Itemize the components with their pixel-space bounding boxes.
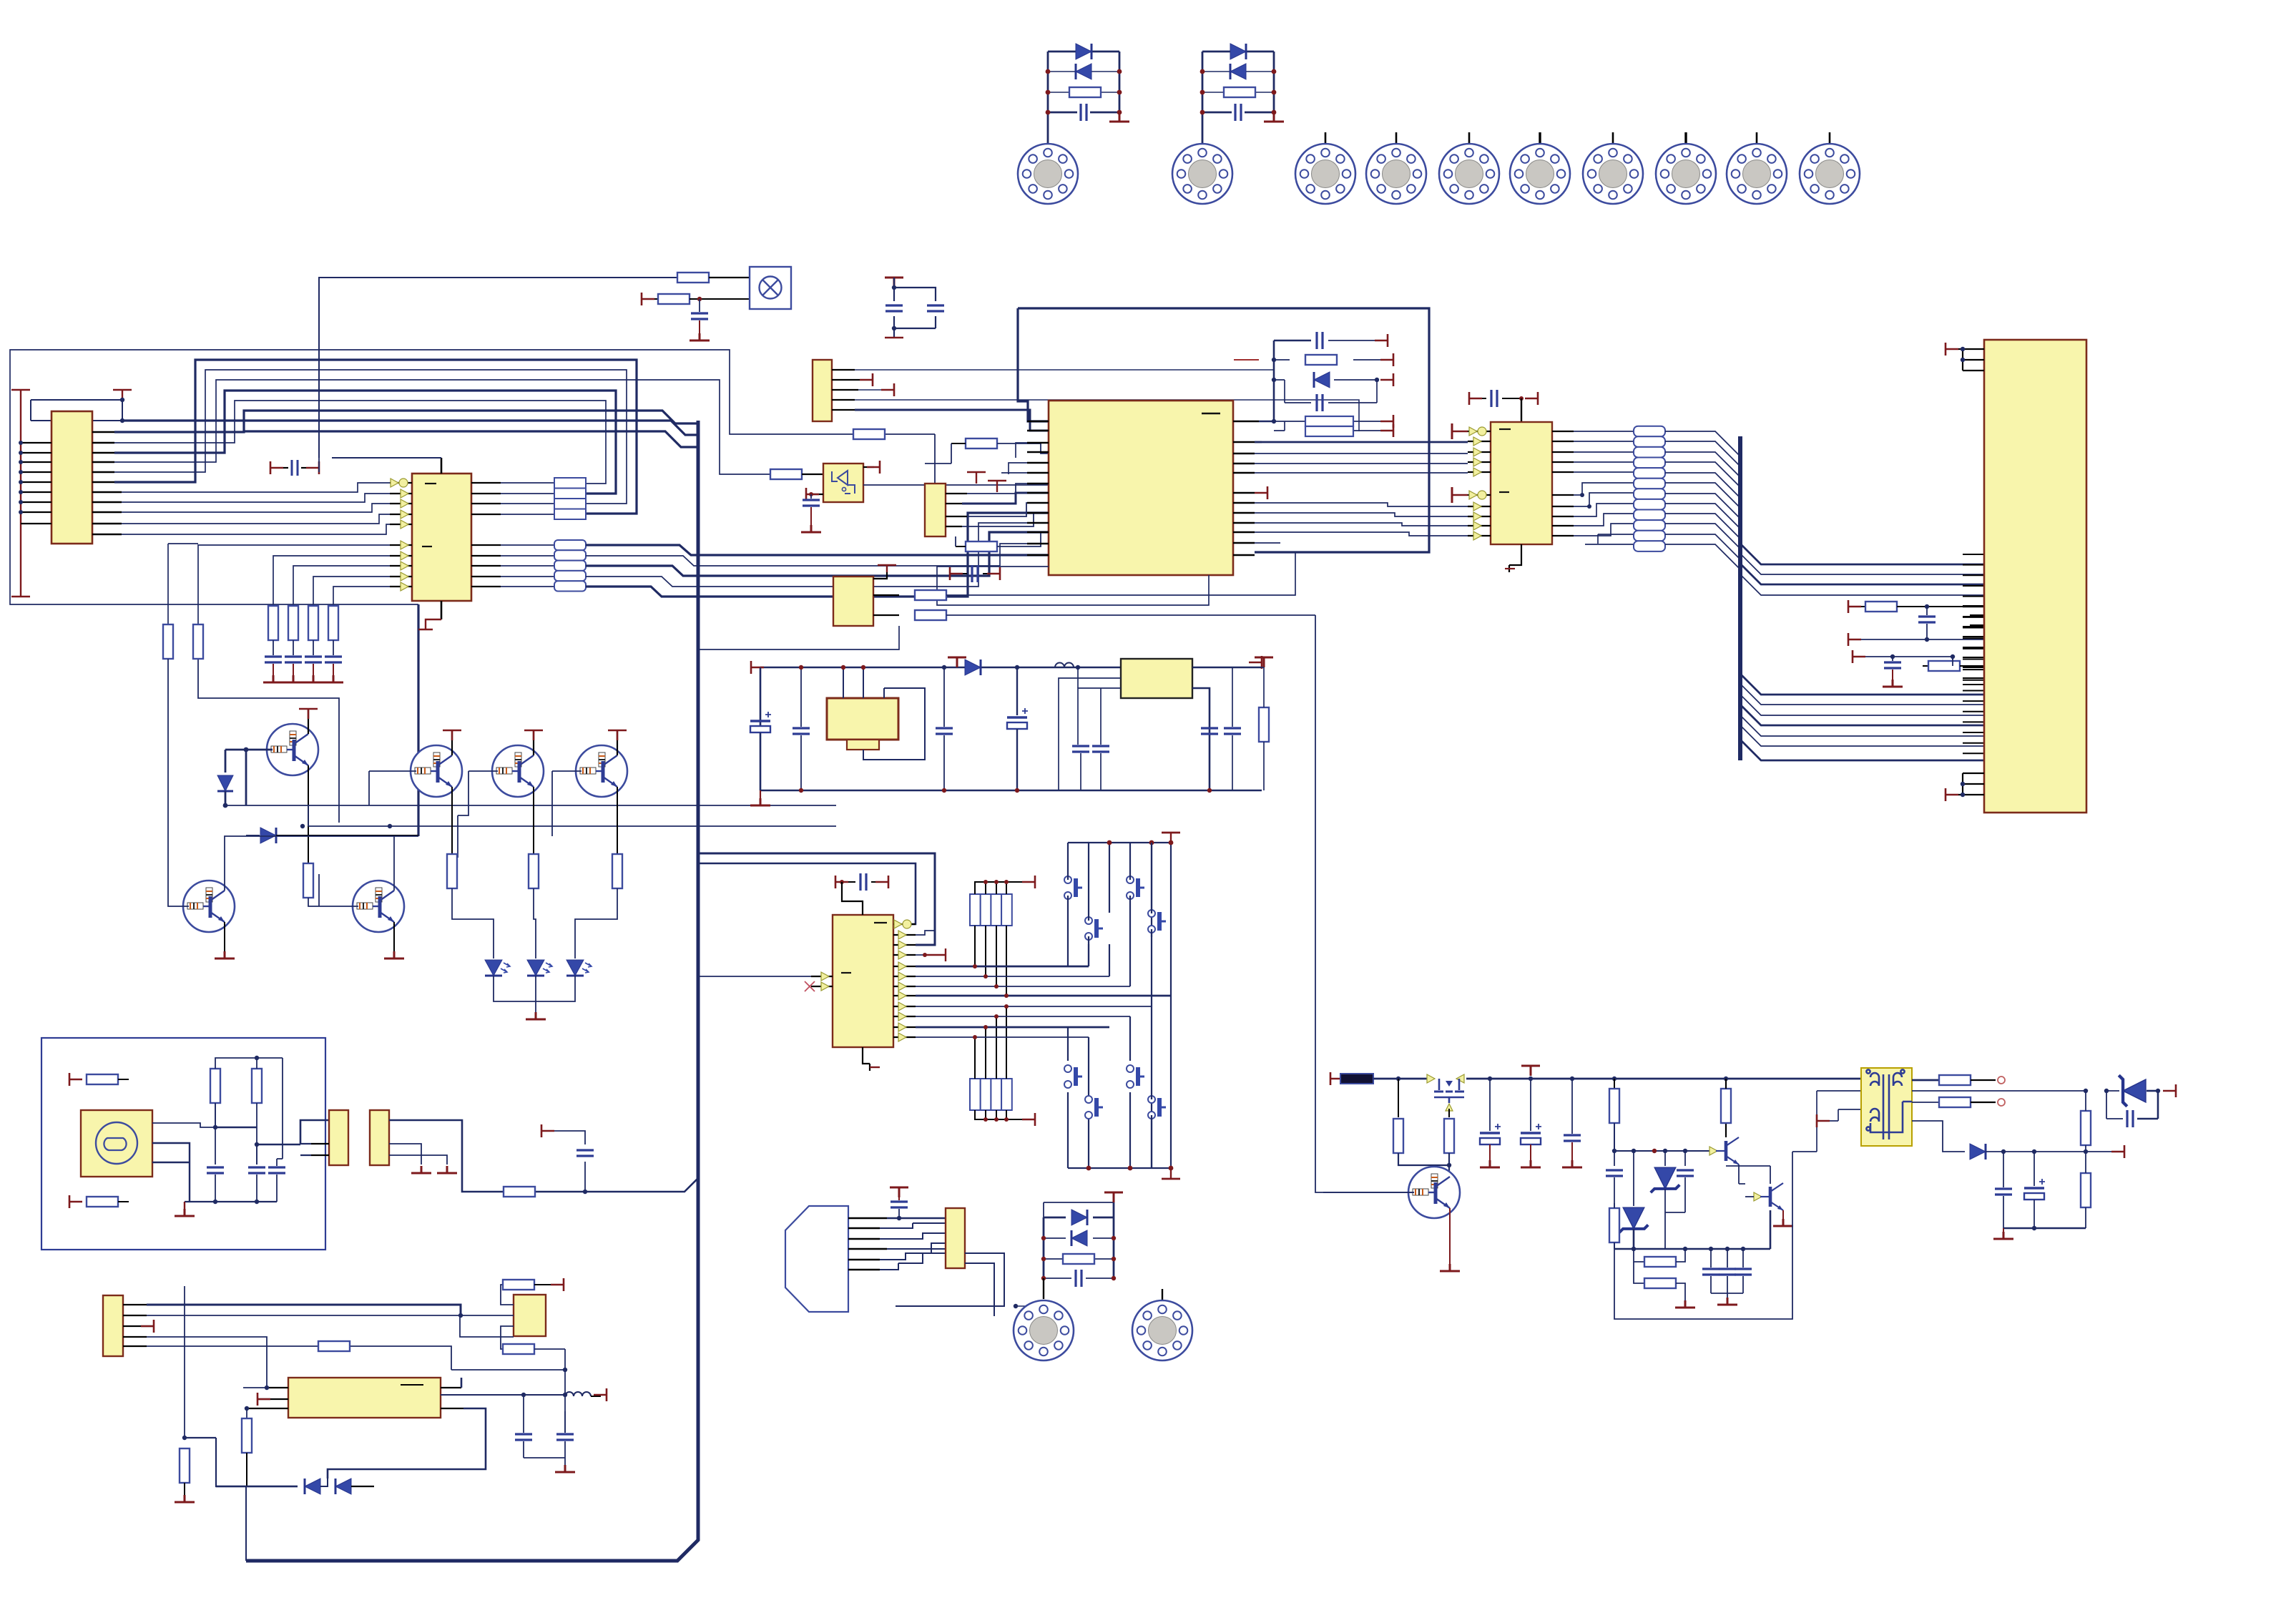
mic pin wires (152, 1103, 329, 1202)
top wires (215, 1058, 283, 1159)
CON3 pin wires (300, 1144, 329, 1155)
no-connect dash (1234, 359, 1259, 361)
transformer output resistor R43 (1912, 1097, 2005, 1107)
capacitor C8 (690, 299, 710, 340)
connector CON3 (329, 1110, 348, 1165)
capacitor C43 (577, 1150, 594, 1156)
resistor R29 R30 stack (1305, 416, 1353, 436)
ground (1109, 114, 1129, 122)
switch SW1 (1085, 917, 1103, 940)
Q3 power (524, 730, 543, 755)
bundle wire 2 (114, 370, 627, 504)
big connector CN1 (1984, 340, 2086, 813)
diode network right: verticals (1044, 1202, 1114, 1278)
resistor R1 (1069, 87, 1101, 97)
electrolytic C32 (1480, 1079, 1501, 1167)
wires U2 lower-left pins to RC columns (168, 544, 390, 625)
pack2 output wires crossing bus to CPU (586, 513, 1049, 597)
diode D12 (1044, 1230, 1114, 1246)
capacitor C19 (793, 667, 810, 790)
resistor R38 (1609, 1203, 1619, 1249)
ground (437, 1166, 457, 1173)
caps C37 C38 C39 (1702, 1249, 1719, 1293)
wires resistors to LEDs (452, 888, 617, 958)
pad P2 (1172, 144, 1232, 204)
diode D7 (216, 1479, 328, 1494)
junction dots (1200, 69, 1277, 115)
bottom ground tick (1162, 1168, 1180, 1179)
capacitor C31 (1853, 650, 1955, 687)
capacitor C36 (1677, 1151, 1694, 1212)
CON1 left pin wires to power rail (21, 443, 51, 524)
capacitor C28 (1044, 1270, 1114, 1287)
electrolytic C41 (2024, 1152, 2045, 1228)
transistor Q10 (1726, 1166, 1793, 1226)
U5 right pins (1552, 431, 1574, 536)
top power tick (1162, 833, 1180, 843)
CON5 wires (147, 1305, 565, 1386)
tick on CPU right pin (1255, 486, 1267, 499)
feed wires from bus (698, 853, 935, 945)
resistor R37 (1609, 1079, 1619, 1151)
decoupling capacitor C3 with ticks (270, 460, 319, 476)
lamp circuit: resistor R9 (677, 273, 750, 283)
capacitor C40 (1995, 1152, 2012, 1228)
amplifier IC U3 (288, 1378, 441, 1418)
CPU left wires extra (1001, 443, 1027, 474)
handset speaker SP1 (785, 1206, 848, 1312)
wire top loop of connector (31, 400, 122, 421)
wires below R7 R8 (168, 458, 319, 830)
diode D3 (1230, 44, 1246, 59)
resistor R7 (163, 624, 173, 659)
resistor R35 (1393, 1079, 1403, 1153)
junction dots (1046, 69, 1122, 115)
U2 ground (418, 601, 441, 629)
CPU right pin stubs (1233, 421, 1262, 555)
ground (411, 1166, 431, 1173)
capacitor C34 (1562, 1079, 1582, 1167)
resistor R11 under Q1 (303, 863, 313, 898)
U2 top pin stub (441, 458, 443, 474)
bank outputs chamfer into bus (1665, 431, 1740, 569)
bottom rail (1993, 1228, 2086, 1239)
diode D4 (1230, 64, 1246, 79)
wire from reset resistor junction (885, 433, 935, 435)
wire from 918 row to resistor row (1952, 657, 1953, 666)
Q5 emitter ground (215, 922, 235, 958)
aux winding diode D15 (1912, 1121, 2124, 1159)
capacitor C15 (556, 1411, 574, 1458)
diode D8 (328, 1469, 374, 1494)
resistor R10 (642, 293, 750, 305)
diode D6 right (246, 828, 418, 843)
CON2 pin wires (832, 370, 860, 410)
capacitor C27 (890, 1187, 908, 1220)
capacitor C5 (283, 657, 303, 682)
diode D10 (948, 657, 981, 675)
crystal block X1 (925, 484, 946, 536)
inductor L2 (1055, 663, 1074, 667)
resistor R40 (1634, 1262, 1685, 1300)
wire bus feeders (122, 421, 698, 447)
Q1 power (299, 709, 318, 734)
wire lamp feed vertical (319, 278, 677, 458)
tick on pin3 (141, 1320, 154, 1333)
electrolytic C21 (1007, 667, 1028, 790)
top rail to power (1044, 1202, 1114, 1217)
dashed area box (41, 1038, 325, 1250)
wires to connector CON6 (880, 1218, 946, 1270)
switch SW7 (1085, 1096, 1103, 1119)
U3 pin3 junction (245, 1406, 249, 1411)
voltage detector U10 (833, 577, 873, 626)
RN2 top wires up (975, 1006, 1006, 1079)
resistor network RN1 top (970, 894, 1012, 926)
long top loop wire CPU pin1 to pin lastrow (1018, 308, 1429, 552)
driver top decoupling cap C29 (1469, 390, 1538, 422)
ground (1264, 114, 1284, 122)
LED LD2 (527, 960, 552, 976)
resistor R6 (328, 606, 338, 640)
Q2 emitter (451, 787, 453, 858)
resistor R31 (1192, 657, 1273, 790)
resistor R39 (1634, 1249, 1685, 1267)
CN1 bottom power pins (1946, 773, 1984, 801)
button column verticals upper (1089, 843, 1171, 996)
transistor Q8 (1408, 1167, 1460, 1218)
capacitor pair C9 C10 (885, 278, 944, 338)
pad P7 with stub (1612, 132, 1614, 144)
snubber R41 (1448, 1176, 1450, 1177)
wire R11 bottom (308, 898, 319, 906)
connector CON6 (946, 1208, 965, 1268)
connector CON2 (813, 360, 832, 421)
wires under resistors (1398, 1153, 1449, 1177)
wire U2 top to feed (332, 457, 441, 459)
Q1 base wire (225, 749, 273, 751)
cap ground (524, 1458, 575, 1472)
Q1 emitter down (308, 765, 309, 868)
RC network A: resistor R33 (1848, 600, 1984, 613)
RN1 top bar (975, 876, 1035, 894)
switch SW6 (1127, 1065, 1144, 1088)
connector CON1 (51, 411, 92, 544)
button column verticals lower (1068, 996, 1171, 1168)
diode D2 (1076, 64, 1091, 79)
wire from outer loop down to transistor bank (417, 604, 419, 836)
resistor network RN2 bottom (970, 1079, 1012, 1110)
zener D16 top right (2106, 1075, 2176, 1127)
lamp LP1 (750, 267, 791, 309)
wire R8 column to bank (198, 659, 339, 823)
wire zener cap bottom to rail (1614, 1203, 1685, 1249)
right bus (1738, 436, 1742, 760)
ground rail (175, 1202, 277, 1216)
resistor R14 (612, 854, 622, 888)
switch SW4 (1127, 876, 1144, 899)
junction dots (120, 398, 124, 423)
pad P9 with stub (1756, 132, 1758, 144)
transistor Q6 (353, 881, 404, 932)
resistor bank RN3 (12 cells) (1634, 426, 1665, 551)
U3 right pins (441, 1388, 463, 1408)
regulator section: top rail (760, 667, 1262, 790)
transformer T1 (1861, 1068, 1912, 1146)
decoupling cap C26 (835, 873, 888, 915)
CPU bottom left loop wire (937, 567, 1209, 605)
SP1 pin wires (848, 1218, 887, 1270)
bus to connector wires upper (1740, 544, 1984, 595)
junction dot (697, 297, 702, 301)
bundle wire 4 (114, 391, 616, 494)
U9 left pins (811, 976, 833, 986)
resistor R32 (1044, 1254, 1114, 1264)
RC network top right of CPU: vertical feed (1259, 340, 1388, 431)
snubber network 1 wires (1048, 52, 1119, 144)
resistor R26 (925, 438, 1049, 464)
bundle wire 5 (114, 401, 606, 484)
upper switch stems (1089, 843, 1152, 1006)
resistor R8 (193, 624, 203, 659)
capacitor C4 (263, 657, 283, 682)
U3 pin1 wire (243, 1386, 267, 1388)
wire down to pad (1043, 1278, 1044, 1299)
electrolytic C33 (1521, 1079, 1541, 1167)
Q3 emitter (533, 787, 534, 858)
transistor Q2 (411, 745, 462, 797)
transistor Q5 (183, 881, 235, 932)
CPU left pin stubs (1027, 421, 1049, 555)
microphone MIC1 (81, 1110, 152, 1177)
U2 left pin triangles and stubs (upper) (390, 483, 412, 524)
U10 top pin to power (873, 565, 896, 579)
U3 left pins (247, 1388, 288, 1408)
caps C24 C25 (1201, 728, 1218, 734)
U9 ground (863, 1047, 880, 1071)
capacitor C14 (515, 1395, 532, 1458)
CON1 right pin stubs (92, 432, 122, 534)
wires CPU to driver (1255, 442, 1468, 536)
IC U2 (412, 474, 471, 601)
capacitor C16 (1317, 332, 1323, 349)
resistor R36 (1444, 1109, 1454, 1153)
bundle wire 3 to reset resistor (114, 380, 770, 474)
base drive wire from bus (1315, 615, 1414, 1192)
resistor R28 (1305, 355, 1337, 365)
switch SW8 (1148, 1096, 1166, 1119)
battery holder BT1 (827, 665, 925, 760)
capacitor C17 (1317, 394, 1323, 411)
switch SW3 (1064, 876, 1082, 899)
U6 left lower pin with tick and cap (801, 488, 823, 532)
resistor pack RP1 (554, 478, 586, 519)
Q5 collector up (225, 836, 418, 891)
bottom rail (1068, 1115, 1171, 1168)
Q5 base wire (168, 830, 189, 906)
transformer output resistor R42 (1912, 1075, 2005, 1085)
CON4 output wires (389, 1120, 698, 1192)
Q4 emitter (617, 787, 618, 858)
resistor R19 (318, 1341, 350, 1351)
CN1 top power pins (1946, 343, 1984, 371)
column wires and caps (273, 640, 333, 655)
matrix row wires (916, 966, 1171, 1037)
pad P8 with stub (1684, 132, 1687, 144)
lower rail (1614, 1210, 1770, 1249)
diode D11 (1071, 1210, 1087, 1225)
CPU lower right stub wire (1255, 542, 1280, 544)
lower section: connector CON5 (103, 1295, 123, 1356)
resistor R5 (308, 606, 318, 640)
wires U2 to packs (501, 483, 554, 587)
zener D13 (1651, 1151, 1680, 1212)
RN1 bottom wires down (975, 926, 1006, 996)
inductor L1 (441, 1392, 601, 1396)
bus to connector wires lower (1740, 674, 1984, 760)
resistor R25 (in 607 line) (853, 429, 885, 439)
connector CON4 (370, 1110, 389, 1165)
driver IC U5 (1491, 422, 1552, 544)
capacitor C6 (303, 657, 323, 682)
RC network B (1848, 633, 1927, 646)
U8 input wires (1059, 667, 1121, 790)
Q4 base wire (552, 771, 582, 836)
pad P5 with stub (1468, 132, 1471, 144)
reset IC U6 (823, 464, 863, 502)
main vertical bus (246, 421, 698, 1561)
U4 left wires (460, 1315, 514, 1337)
snubber network 2 wires (1202, 52, 1274, 144)
capacitor C7 (323, 657, 343, 682)
wire base rail (225, 805, 836, 806)
pad P1 (1018, 144, 1078, 204)
reset chain resistor R24 (770, 469, 823, 479)
pad P10 with stub (1829, 132, 1831, 144)
input tick (1330, 1072, 1343, 1085)
capacitor C42 (950, 565, 1000, 582)
pad P3 with stub (1325, 132, 1327, 144)
long sense wire (1912, 1090, 2086, 1092)
Q6 collector up (393, 836, 395, 891)
U6 output wire (863, 434, 1049, 485)
resistor R16 (69, 1195, 129, 1208)
power tick (1521, 1066, 1540, 1076)
CPU U7 (1049, 401, 1233, 575)
U8 output (1192, 688, 1210, 790)
diode D9 (1314, 372, 1330, 388)
main rail (1373, 1078, 1740, 1080)
connector pins short stubs (1963, 606, 1984, 685)
wire left riser to diode row (245, 1486, 247, 1561)
bundle wire 1 (outer) (114, 360, 637, 514)
resistor R13 (529, 854, 539, 888)
DCDC block U8 (1121, 659, 1192, 698)
tick on pin4 (916, 948, 946, 961)
LED common wire and ground (494, 976, 575, 1019)
resistor R48 (873, 610, 1315, 620)
capacitor C2 (1235, 104, 1241, 121)
U5 ground (1505, 544, 1521, 572)
transistor Q1 (267, 724, 318, 775)
resistor R4 (288, 606, 298, 640)
U6 top right tick (863, 461, 880, 474)
ticks above crystal (967, 472, 1006, 492)
ticks on first pins (1452, 423, 1468, 439)
U2 left pin stubs (lower) (390, 545, 412, 587)
mid row junctions (1614, 1150, 1713, 1152)
pad P11 (1014, 1300, 1074, 1360)
IC U4 small (514, 1295, 546, 1336)
transistor Q4 (576, 745, 627, 797)
resistor R18 (252, 1069, 262, 1103)
Q3 base wire (458, 771, 498, 858)
MOSFET Q7 (1427, 1074, 1464, 1111)
switch SW5 (1064, 1065, 1082, 1088)
resistor pack RP2 (554, 540, 586, 592)
resistor R47 (873, 552, 1295, 600)
resistor R45 lower (2081, 1152, 2091, 1228)
resistor R49 (504, 1187, 535, 1197)
CN1 left pin stubs (1963, 554, 1984, 753)
resistor R20 below pin3 (242, 1418, 252, 1453)
pad P6 with stub (1539, 132, 1541, 144)
bottom return wire (1614, 1152, 1792, 1319)
resistor R15 (69, 1073, 129, 1086)
capacitor C13 (268, 1159, 285, 1202)
resistor R44 upper (2081, 1091, 2091, 1152)
resistor R34 (1923, 661, 1984, 671)
resistor R21 (180, 1448, 190, 1483)
U5 left pins (1468, 431, 1491, 536)
diode D1 (1076, 44, 1091, 59)
capacitor C1 (1081, 104, 1086, 121)
capacitor C11 (207, 1167, 224, 1202)
CON6 output wires (896, 1253, 1044, 1316)
capacitor C30 (1918, 607, 1984, 642)
U9 right pins with triangles (893, 924, 916, 1037)
pad P12 with stub (1132, 1289, 1192, 1360)
wires CON1 pins to U2 left pins (122, 483, 390, 534)
fuse F1 (1340, 1074, 1373, 1084)
U10 ground wire to bus (698, 626, 899, 649)
LED LD1 (485, 960, 510, 976)
resistor R2 (1224, 87, 1255, 97)
U3 output loop (185, 1378, 486, 1486)
zener D14 (1619, 1151, 1649, 1249)
resistor R12 (447, 854, 457, 888)
RC columns: resistor R3 (268, 606, 278, 640)
CON5 pin wires (123, 1305, 154, 1346)
power rail red vertical left (11, 390, 132, 597)
wires U5 to resistor bank (1574, 431, 1634, 544)
resistor R23 below (501, 1326, 565, 1433)
X1 pin wires (946, 494, 967, 526)
resistor R17 (210, 1069, 220, 1103)
wire outer loop A via reset chain (10, 350, 854, 604)
transistor Q9 (1709, 1079, 1745, 1184)
Q4 power (608, 730, 627, 755)
electrolytic C18 (750, 667, 771, 790)
wire rail to transformer (1740, 1079, 1861, 1152)
caps C22 C23 under inductor (1072, 745, 1089, 790)
capacitor C35 (1606, 1151, 1623, 1203)
capacitor C20 (936, 667, 953, 790)
diode D5 down (217, 750, 233, 805)
Q6 base wire (319, 874, 358, 906)
RN2 bottom bar (975, 1110, 1035, 1126)
resistor R22 above (501, 1278, 564, 1305)
